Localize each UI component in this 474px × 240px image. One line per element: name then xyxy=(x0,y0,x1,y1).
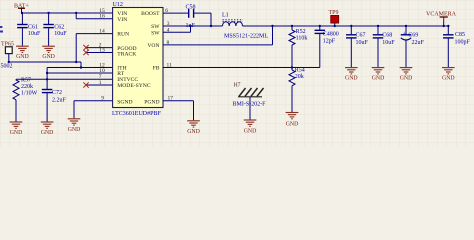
svg-text:110k: 110k xyxy=(296,36,308,42)
capacitor C58 xyxy=(186,4,196,29)
wire ITH xyxy=(46,68,113,90)
svg-text:GND: GND xyxy=(42,54,55,60)
ground under C61 xyxy=(16,46,29,60)
power port VCAMERA xyxy=(426,11,457,27)
svg-text:TRACK: TRACK xyxy=(117,51,136,57)
svg-text:GND: GND xyxy=(10,130,23,136)
svg-text:L1: L1 xyxy=(222,12,229,18)
IC U12 left pin numbers xyxy=(99,8,105,102)
svg-text:C67: C67 xyxy=(356,33,366,39)
ground under C62 xyxy=(42,46,55,60)
resistor R52 xyxy=(289,26,307,68)
svg-text:2.2uF: 2.2uF xyxy=(52,98,67,104)
svg-text:R52: R52 xyxy=(296,29,306,35)
svg-text:SW: SW xyxy=(151,24,160,30)
test point TP9 xyxy=(329,10,339,26)
svg-text:GND: GND xyxy=(400,76,413,82)
svg-text:13: 13 xyxy=(99,48,105,54)
svg-text:20k: 20k xyxy=(295,74,304,80)
IC U12 left pin names xyxy=(117,11,151,105)
ground under R54 xyxy=(286,113,299,128)
svg-text:C58: C58 xyxy=(186,4,196,10)
svg-text:GND: GND xyxy=(345,76,358,82)
capacitor C67 xyxy=(346,26,368,67)
wire VON xyxy=(163,26,273,45)
svg-text:BOOST: BOOST xyxy=(141,11,160,17)
svg-text:C69: C69 xyxy=(408,33,418,39)
svg-text:12pF: 12pF xyxy=(323,38,336,44)
svg-text:H7: H7 xyxy=(234,82,241,88)
ground under PGND xyxy=(187,121,200,135)
svg-text:10uF: 10uF xyxy=(54,31,67,37)
svg-text:C85: C85 xyxy=(455,32,465,38)
wire VIN rail xyxy=(21,12,113,14)
wire BOOST xyxy=(163,12,188,14)
wire RT xyxy=(47,72,113,74)
svg-text:C72: C72 xyxy=(52,90,62,96)
svg-text:C61: C61 xyxy=(28,25,38,31)
svg-text:RT: RT xyxy=(117,71,124,77)
svg-text:14: 14 xyxy=(99,29,105,35)
svg-text:VIN: VIN xyxy=(117,17,127,23)
svg-text:U12: U12 xyxy=(113,2,123,8)
capacitor C69 polarized xyxy=(401,26,425,67)
svg-text:LTC3601EUD#PBF: LTC3601EUD#PBF xyxy=(112,111,161,117)
no-ERC mark PGOOD xyxy=(83,45,88,50)
wire SW pin3 xyxy=(163,25,223,27)
svg-text:GND: GND xyxy=(286,122,299,128)
svg-text:C62: C62 xyxy=(54,25,64,31)
no-ERC mark MODE-SYNC xyxy=(83,82,88,87)
svg-text:100pF: 100pF xyxy=(455,40,471,46)
svg-text:GND: GND xyxy=(442,76,455,82)
ground under H7 xyxy=(244,120,257,134)
no-ERC mark TRACK xyxy=(83,50,88,55)
wire C58 to SW xyxy=(194,13,212,27)
ground under C68 xyxy=(372,68,385,82)
svg-text:VON: VON xyxy=(147,43,159,49)
wire SW pin4 jog xyxy=(163,25,192,32)
svg-text:MODE-SYNC: MODE-SYNC xyxy=(117,83,151,89)
wire SGND xyxy=(74,101,113,119)
svg-text:BMI-S-202-F: BMI-S-202-F xyxy=(233,102,267,108)
wire VOUT rail xyxy=(243,25,450,27)
ground under R57 xyxy=(10,122,23,136)
svg-text:1/10W: 1/10W xyxy=(21,90,38,96)
test point TP65 xyxy=(1,41,15,69)
svg-text:C68: C68 xyxy=(382,33,392,39)
wire FB xyxy=(163,66,320,68)
wire TRACK stub xyxy=(86,52,113,54)
IC U12 body xyxy=(112,2,163,117)
wire MODE-SYNC stub xyxy=(86,84,113,86)
capacitor C61 xyxy=(17,13,41,46)
svg-text:SW: SW xyxy=(151,30,160,36)
capacitor C72 xyxy=(42,89,67,122)
wire RUN xyxy=(75,34,113,64)
svg-text:220k: 220k xyxy=(21,84,33,90)
svg-text:GND: GND xyxy=(372,76,385,82)
resistor R54 xyxy=(289,68,305,113)
capacitor C85 xyxy=(443,26,470,67)
shield H7 xyxy=(233,82,267,119)
svg-text:GND: GND xyxy=(187,129,200,135)
ground under C67 xyxy=(345,68,358,82)
svg-text:R57: R57 xyxy=(21,77,31,83)
wire PGND xyxy=(163,101,194,121)
svg-text:C4800: C4800 xyxy=(323,31,339,37)
svg-text:10uF: 10uF xyxy=(382,40,395,46)
svg-text:1: 1 xyxy=(99,80,102,86)
capacitor C62 xyxy=(43,13,67,46)
resistor R57 xyxy=(13,77,38,121)
ground under C69 xyxy=(400,68,413,82)
svg-text:22uF: 22uF xyxy=(412,40,425,46)
wire pin16 jog xyxy=(76,13,113,19)
wire TP65 net xyxy=(9,62,82,69)
svg-text:9: 9 xyxy=(101,96,104,102)
svg-text:5002: 5002 xyxy=(1,63,13,69)
capacitor C68 xyxy=(373,26,395,67)
IC U12 right pin names xyxy=(141,11,160,105)
ground under C72 xyxy=(41,122,54,136)
svg-text:FB: FB xyxy=(153,66,160,72)
wire INTVCC net xyxy=(16,78,113,80)
IC U12 right pin numbers xyxy=(165,8,173,102)
svg-text:GND: GND xyxy=(41,130,54,136)
power port BAT+ xyxy=(14,4,29,14)
capacitor C48 feed-forward xyxy=(315,26,339,68)
svg-text:16: 16 xyxy=(99,14,105,20)
svg-text:10uF: 10uF xyxy=(28,31,41,37)
svg-text:10uF: 10uF xyxy=(356,40,369,46)
ground under SGND xyxy=(68,119,81,133)
svg-text:MSS5121-222ML: MSS5121-222ML xyxy=(224,33,268,39)
svg-text:GND: GND xyxy=(68,127,81,133)
svg-text:GND: GND xyxy=(16,54,29,60)
svg-text:R54: R54 xyxy=(295,68,305,74)
svg-text:SGND: SGND xyxy=(117,99,132,105)
svg-text:10: 10 xyxy=(99,68,105,74)
wire PGOOD stub xyxy=(86,47,113,49)
svg-text:GND: GND xyxy=(244,128,257,134)
svg-text:RUN: RUN xyxy=(117,32,129,38)
edge text fragments xyxy=(0,26,3,33)
inductor L1 xyxy=(222,12,268,39)
ground under C85 xyxy=(442,68,455,82)
svg-text:PGND: PGND xyxy=(144,99,159,105)
